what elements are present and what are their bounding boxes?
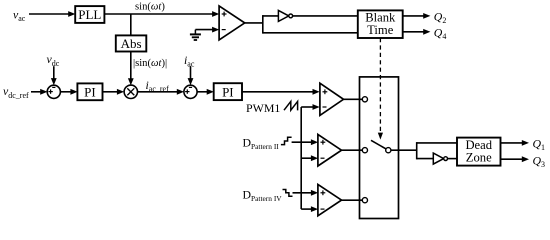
wire Blank Time to Q2 bbox=[403, 15, 425, 17]
svg-text:Q3: Q3 bbox=[533, 153, 546, 169]
block PLL bbox=[75, 6, 104, 23]
wire ground to U1 - input bbox=[195, 29, 213, 31]
wire PLL output to comparator U1 + input bbox=[104, 13, 213, 15]
wire S1 to PI1 bbox=[60, 91, 72, 93]
svg-text:Q4: Q4 bbox=[434, 26, 447, 42]
wire v_dc into summer S1 bbox=[53, 66, 55, 79]
wire N1 to Blank Time bbox=[293, 15, 358, 17]
wire branch vertical bbox=[262, 15, 264, 33]
svg-text:PI: PI bbox=[84, 85, 96, 100]
wire S2 to PI2 bbox=[197, 91, 208, 93]
label D_Pattern II step glyph bbox=[281, 137, 292, 144]
block Abs bbox=[116, 35, 147, 51]
svg-text:sin(ωt): sin(ωt) bbox=[135, 2, 165, 13]
wire Blank Time to Q4 bbox=[403, 31, 425, 33]
wire i_ac into S2 bbox=[190, 66, 192, 79]
node switch pole bbox=[386, 148, 391, 153]
svg-text:vac: vac bbox=[13, 7, 26, 23]
comparator U1 zero-cross detector bbox=[219, 6, 245, 40]
block selector switch bbox=[360, 77, 399, 219]
svg-text:Q2: Q2 bbox=[434, 10, 447, 26]
block Dead Zone bbox=[457, 138, 501, 166]
wire U2 output to contact 1 bbox=[344, 98, 363, 100]
svg-text:Dead: Dead bbox=[465, 138, 492, 152]
wire branch vertical at dead zone bbox=[416, 142, 418, 159]
block Blank Time bbox=[358, 10, 403, 38]
block PI1 bbox=[77, 83, 102, 100]
node contact 2 bbox=[362, 148, 367, 153]
svg-text:Zone: Zone bbox=[466, 151, 492, 165]
wire U4 output to contact 3 bbox=[342, 199, 363, 201]
wire U1 output bbox=[245, 22, 263, 24]
comparator U4 pattern IV bbox=[318, 184, 342, 215]
multiplier X1 bbox=[124, 85, 137, 98]
svg-text:iac: iac bbox=[184, 53, 195, 69]
wire v_ac to PLL bbox=[29, 13, 70, 15]
summer S2 bbox=[184, 85, 197, 98]
wire to inverter N1 bbox=[263, 15, 279, 17]
node contact 3 bbox=[362, 198, 367, 203]
svg-text:PI: PI bbox=[222, 84, 234, 99]
switch lever bbox=[371, 140, 387, 149]
svg-text:Q1: Q1 bbox=[533, 137, 546, 153]
wire top to Dead Zone bbox=[417, 142, 457, 144]
wire PI1 to multiplier bbox=[103, 91, 119, 93]
svg-text:|sin(ωt)|: |sin(ωt)| bbox=[133, 58, 167, 69]
ground bbox=[194, 30, 196, 35]
svg-text:Time: Time bbox=[367, 23, 394, 37]
wire switch output bbox=[391, 149, 417, 151]
wire D_Pattern II to U3 + input bbox=[292, 141, 313, 143]
label PWM1 sawtooth glyph bbox=[284, 101, 298, 110]
wire Dead Zone to Q1 bbox=[501, 142, 524, 144]
comparator U2 PWM bbox=[320, 83, 344, 115]
svg-text:Abs: Abs bbox=[121, 36, 142, 51]
node contact 1 bbox=[362, 97, 367, 102]
wire multiplier to summer S2 bbox=[138, 91, 179, 93]
svg-text:DPattern IV: DPattern IV bbox=[243, 187, 283, 203]
svg-text:vdc_ref: vdc_ref bbox=[3, 84, 29, 100]
summer S1 bbox=[47, 85, 60, 98]
block PI2 bbox=[214, 83, 242, 100]
wire bus to U3 - input bbox=[301, 157, 312, 159]
svg-text:vdc: vdc bbox=[47, 52, 60, 68]
svg-text:DPattern II: DPattern II bbox=[243, 136, 280, 152]
wire branch down to Abs bbox=[130, 14, 132, 36]
comparator U3 pattern II bbox=[318, 134, 342, 166]
wire Abs to multiplier bbox=[130, 52, 132, 80]
wire bus to U4 - input bbox=[301, 208, 312, 210]
wire v_dc_ref into S1 bbox=[31, 91, 42, 93]
wire D_Pattern IV to U4 + input bbox=[293, 192, 313, 194]
wire Dead Zone to Q3 bbox=[501, 158, 524, 160]
svg-text:PLL: PLL bbox=[78, 7, 101, 22]
wire PI2 to comparator U2 + input bbox=[242, 91, 314, 93]
inverter N1 bbox=[278, 10, 288, 21]
svg-text:PWM1: PWM1 bbox=[246, 101, 280, 115]
wire N2 to Dead Zone bbox=[448, 158, 458, 160]
label D_Pattern IV step glyph bbox=[283, 190, 293, 197]
wire U3 output to contact 2 bbox=[342, 149, 363, 151]
wire direct to Blank Time bbox=[263, 32, 358, 34]
inverter N2 bbox=[433, 153, 443, 164]
wire PWM bus to U2 - input bbox=[301, 106, 314, 108]
wire dashed control line to switch bbox=[379, 38, 381, 133]
wire PWM vertical bus bbox=[300, 107, 302, 209]
wire bottom to inverter N2 bbox=[417, 158, 434, 160]
